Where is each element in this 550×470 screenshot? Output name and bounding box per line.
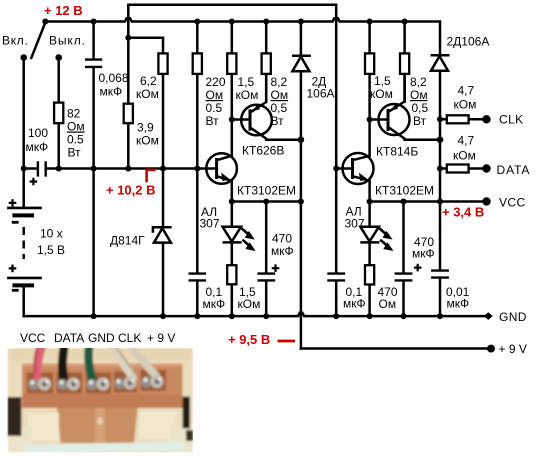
wire DATA line — [440, 167, 487, 170]
node T3 collector diode2 — [437, 136, 444, 143]
node GND x163 — [160, 313, 166, 319]
svg-text:Д814Г: Д814Г — [110, 234, 145, 248]
red dash after +9,5V — [278, 340, 296, 343]
svg-text:0.5: 0.5 — [67, 133, 84, 147]
svg-text:CLK: CLK — [499, 113, 524, 127]
photo bottom light band — [24, 442, 184, 453]
terminal +9V — [487, 345, 495, 353]
wire 470uF no1 column — [265, 202, 268, 317]
svg-text:+ 3,4 В: + 3,4 В — [442, 205, 484, 220]
wire Vkl column — [22, 58, 25, 169]
svg-text:82: 82 — [67, 107, 81, 121]
capacitor 470 mkF no1 plus — [272, 264, 280, 272]
wire 1,5k no1 column — [231, 22, 234, 156]
wire VCC row stage1 — [232, 200, 301, 203]
photo wire green — [88, 347, 93, 381]
node GND x336.2 — [333, 313, 339, 319]
capacitor 470 mkF no2 plus — [414, 264, 422, 272]
svg-text:кОм: кОм — [136, 87, 159, 101]
photo white block right — [139, 412, 176, 440]
LED AL307 no2 — [360, 227, 379, 243]
capacitor 470 mkF no1 — [257, 274, 275, 281]
svg-text:0,068: 0,068 — [99, 71, 129, 85]
diode 2D106A no1 — [292, 56, 311, 72]
svg-text:+ 10,2 В: + 10,2 В — [106, 183, 156, 198]
node mid line x128.3 — [125, 166, 131, 172]
photo dark edge left — [8, 397, 22, 436]
wire Vykl column upper — [57, 58, 60, 103]
wire VCC row stage2 — [370, 200, 487, 203]
wire 6,2k column — [162, 38, 165, 169]
svg-text:+ 9 V: + 9 V — [147, 331, 175, 345]
photo screws — [28, 375, 164, 391]
wire mid node line y168.5 right of cap to T2 base — [47, 167, 217, 170]
capacitor 0,01 mkF — [431, 271, 449, 278]
wire 0,1uF no1 column — [196, 169, 199, 317]
photo white block left — [28, 413, 59, 441]
wire diode2 column — [439, 71, 442, 316]
capacitor 470 mkF no2 — [395, 274, 413, 281]
svg-text:+ 9 V: + 9 V — [499, 342, 527, 356]
node Vkl — [20, 54, 27, 61]
wire T3 collector row — [405, 138, 440, 141]
node GND x197.3 — [194, 313, 200, 319]
resistor 470 Om below LED2 — [365, 265, 374, 284]
svg-text:4,7: 4,7 — [458, 134, 475, 148]
node T1 collector diode1 — [298, 136, 305, 143]
svg-text:VCC: VCC — [499, 196, 526, 210]
svg-text:мкФ: мкФ — [100, 85, 123, 99]
wire +9V row — [301, 347, 491, 350]
svg-text:1,5 В: 1,5 В — [37, 243, 65, 257]
node rail 8,2 no2 — [402, 19, 408, 25]
svg-text:КТ3102ЕМ: КТ3102ЕМ — [375, 184, 434, 198]
LED AL307 no1 — [223, 227, 242, 243]
node GND x440 — [437, 313, 443, 319]
svg-text:8,2: 8,2 — [410, 75, 427, 89]
svg-text:0,5: 0,5 — [271, 101, 288, 115]
wire top bypass line — [128, 5, 336, 38]
svg-text:106А: 106А — [307, 87, 335, 101]
photo lower trapezoid — [57, 408, 138, 443]
photo terminal bar — [22, 364, 183, 398]
svg-text:1,5: 1,5 — [238, 75, 255, 89]
svg-text:+ 9,5 В: + 9,5 В — [228, 332, 270, 347]
wire T1 collector row — [266, 138, 301, 141]
terminal VCC — [482, 197, 490, 205]
node rail 1,5k no1 — [229, 19, 235, 25]
node T1 base — [229, 117, 235, 123]
svg-text:мкФ: мкФ — [26, 140, 49, 154]
node rail diode1 — [298, 19, 304, 25]
resistor 1,5 kOm no2 — [365, 53, 374, 74]
wire 8,2 no1 column — [265, 22, 268, 103]
node Vykl — [55, 54, 62, 61]
svg-text:кОм: кОм — [236, 88, 259, 102]
photo wire pink — [37, 347, 42, 380]
resistor 82 Om — [54, 103, 63, 124]
svg-text:2Д106А: 2Д106А — [447, 35, 490, 49]
node CLK tap — [437, 116, 443, 122]
node switch rail — [42, 19, 48, 25]
wire 1,5k no2 column — [368, 22, 371, 156]
wire LED1 column — [231, 202, 234, 317]
node T2 base — [194, 166, 200, 172]
svg-text:DATA: DATA — [54, 331, 84, 345]
wire 220 column — [196, 22, 199, 169]
battery 10x1,5V cell1 — [7, 199, 42, 222]
svg-text:VCC: VCC — [20, 331, 46, 345]
svg-text:кОм: кОм — [453, 149, 476, 163]
svg-text:мкФ: мкФ — [271, 244, 294, 258]
wire mid node line y168.5 left of cap — [24, 167, 37, 170]
node T4 base tap — [333, 166, 339, 172]
svg-text:3,9: 3,9 — [137, 121, 154, 135]
photo wire light2 — [131, 347, 156, 376]
wire 8,2 no2 column — [403, 22, 406, 102]
svg-text:КТ3102ЕМ: КТ3102ЕМ — [237, 184, 296, 198]
terminal GND diamond — [484, 312, 493, 320]
transistor T2 KT3102EM no1 (NPN) — [206, 153, 237, 184]
node DATA tap — [437, 166, 443, 172]
svg-text:GND: GND — [88, 331, 115, 345]
svg-text:кОм: кОм — [370, 87, 393, 101]
svg-text:CLK: CLK — [118, 331, 141, 345]
svg-text:1,5: 1,5 — [374, 74, 391, 88]
node VCC row x231.8 — [229, 199, 235, 205]
svg-text:Выкл.: Выкл. — [49, 34, 86, 48]
red marker bracket at +10,2V node — [147, 170, 156, 182]
wire GND row with hop — [24, 313, 485, 316]
svg-text:мкФ: мкФ — [203, 297, 226, 311]
node mid line x23.7 — [21, 166, 27, 172]
wire 3,9k column and jog to 6,2k — [128, 38, 163, 169]
svg-text:Ом: Ом — [410, 88, 428, 102]
svg-text:Вт: Вт — [68, 146, 82, 160]
transistor T3 KT814B (PNP) — [370, 74, 410, 140]
node GND x369.6 — [367, 313, 373, 319]
wire T4 emitter to VCC row — [368, 181, 371, 202]
terminal DATA — [482, 164, 490, 172]
transistor T4 KT3102EM no2 (NPN) — [343, 153, 374, 184]
zener D814G — [153, 227, 172, 242]
wire 470uF no2 column — [402, 202, 405, 317]
svg-text:Ом: Ом — [67, 120, 85, 134]
battery dashed middle — [22, 227, 25, 259]
svg-text:0.5: 0.5 — [206, 101, 223, 115]
photo holes — [27, 373, 54, 394]
svg-text:мкФ: мкФ — [447, 297, 470, 311]
node GND x231.8 — [229, 313, 235, 319]
node rail 220 — [194, 19, 200, 25]
node rail 1,5k no2 — [367, 19, 373, 25]
capacitor 0,068 mkF — [85, 60, 102, 67]
battery cell2 — [7, 265, 42, 291]
svg-text:КТ626В: КТ626В — [242, 144, 284, 158]
node GND x403.5 — [401, 313, 407, 319]
svg-text:Ом: Ом — [379, 297, 397, 311]
wire diode1 column — [300, 22, 303, 349]
node rail 0,068 — [91, 19, 97, 25]
wire switch lever — [31, 23, 45, 58]
node GND x266.2 — [263, 313, 269, 319]
node mid line x163 — [160, 166, 166, 172]
capacitor 100 mkF plates — [38, 161, 46, 176]
svg-text:220: 220 — [206, 75, 226, 89]
svg-text:307: 307 — [200, 217, 220, 231]
svg-text:8,2: 8,2 — [271, 75, 288, 89]
wire battery top lead — [22, 169, 25, 208]
node rail 8,2 no1 — [263, 19, 269, 25]
svg-text:Ом: Ом — [206, 88, 224, 102]
svg-text:КТ814Б: КТ814Б — [376, 145, 418, 159]
node VCC row x300.9 — [298, 199, 304, 205]
node VCC row x403.5 — [401, 199, 407, 205]
node mid line x93.6 — [91, 166, 97, 172]
resistor 1,5 kOm no1 — [227, 53, 236, 74]
svg-text:4,7: 4,7 — [458, 84, 475, 98]
svg-text:307: 307 — [345, 217, 365, 231]
svg-text:+ 12 В: + 12 В — [44, 3, 83, 18]
svg-text:100: 100 — [28, 126, 48, 140]
svg-text:DATA: DATA — [497, 163, 531, 177]
node VCC row x369.6 — [367, 199, 373, 205]
wire Vykl column lower — [57, 123, 60, 168]
capacitor 0,1 mkF no2 — [327, 274, 345, 281]
LED AL307 no1 arrows — [242, 228, 255, 250]
resistor 6,2 kOm — [158, 53, 167, 74]
wire 0,068 column — [92, 22, 95, 317]
photo of connector — [8, 347, 194, 453]
terminal CLK — [482, 115, 490, 123]
transistor T1 KT626V (PNP) — [232, 74, 272, 140]
resistor 220 Om — [193, 53, 202, 74]
node VCC row x266 — [263, 199, 269, 205]
photo wire black — [62, 347, 64, 381]
svg-text:кОм: кОм — [454, 98, 477, 112]
resistor 4,7 kOm DATA — [447, 165, 469, 173]
resistor 3,9 kOm — [124, 104, 133, 124]
svg-text:6,2: 6,2 — [140, 74, 157, 88]
capacitor 0,1 mkF no1 — [189, 274, 207, 281]
svg-text:Вт: Вт — [413, 114, 427, 128]
wire LED2 column — [368, 202, 371, 317]
svg-text:Вкл.: Вкл. — [2, 34, 29, 48]
svg-text:GND: GND — [499, 310, 527, 324]
svg-text:10 х: 10 х — [40, 227, 63, 241]
wire T2 emitter to VCC row — [231, 181, 234, 202]
wire CLK line — [440, 118, 487, 121]
svg-text:мкФ: мкФ — [412, 247, 435, 261]
LED AL307 no2 arrows — [379, 228, 392, 250]
resistor 8,2 Om no2 — [400, 53, 409, 74]
photo dark edge right — [183, 397, 191, 429]
svg-text:0,5: 0,5 — [412, 101, 429, 115]
resistor 1,5 kOm below LED1 — [227, 265, 236, 284]
capacitor 100 mkF plus — [30, 178, 38, 186]
photo wire light1 — [112, 347, 133, 378]
svg-text:мкФ: мкФ — [343, 297, 366, 311]
resistor 8,2 Om no1 — [262, 53, 271, 74]
node T3 base — [367, 117, 373, 123]
wire mid bus x336 — [335, 22, 338, 317]
node VCC row x440 — [437, 199, 443, 205]
wire battery bottom — [22, 286, 25, 316]
wire main +12V rail with hops — [45, 18, 440, 55]
svg-text:Вт: Вт — [271, 114, 285, 128]
svg-text:кОм: кОм — [238, 297, 261, 311]
svg-text:кОм: кОм — [136, 134, 159, 148]
svg-text:Вт: Вт — [206, 114, 220, 128]
resistor 4,7 kOm CLK — [447, 115, 469, 123]
wire zener column — [162, 169, 165, 317]
node mid line x58.7 — [56, 166, 62, 172]
diode 2D106A no2 — [431, 55, 450, 71]
node GND x93.6 — [91, 313, 97, 319]
wire T4 base — [336, 167, 352, 170]
svg-text:Ом: Ом — [271, 88, 289, 102]
node bypass to 3,9k — [125, 35, 131, 41]
